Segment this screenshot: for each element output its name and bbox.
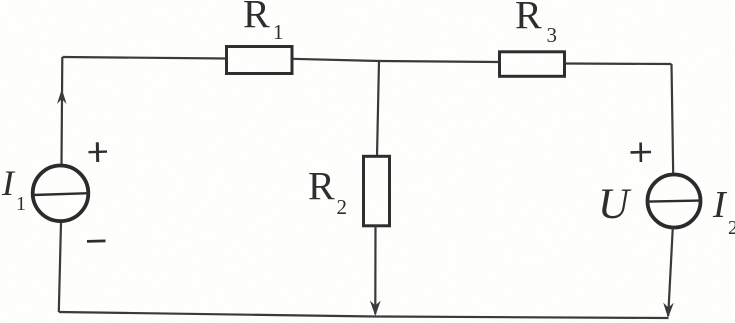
svg-text:U: U [598, 181, 632, 228]
svg-text:I: I [1, 163, 16, 203]
svg-text:1: 1 [16, 193, 26, 215]
svg-text:R: R [243, 0, 270, 37]
svg-text:R: R [515, 0, 542, 38]
svg-text:2: 2 [728, 217, 735, 239]
svg-text:3: 3 [547, 23, 558, 47]
svg-text:I: I [712, 184, 728, 226]
svg-text:2: 2 [337, 195, 348, 219]
svg-text:1: 1 [273, 20, 284, 44]
svg-text:R: R [308, 164, 335, 209]
